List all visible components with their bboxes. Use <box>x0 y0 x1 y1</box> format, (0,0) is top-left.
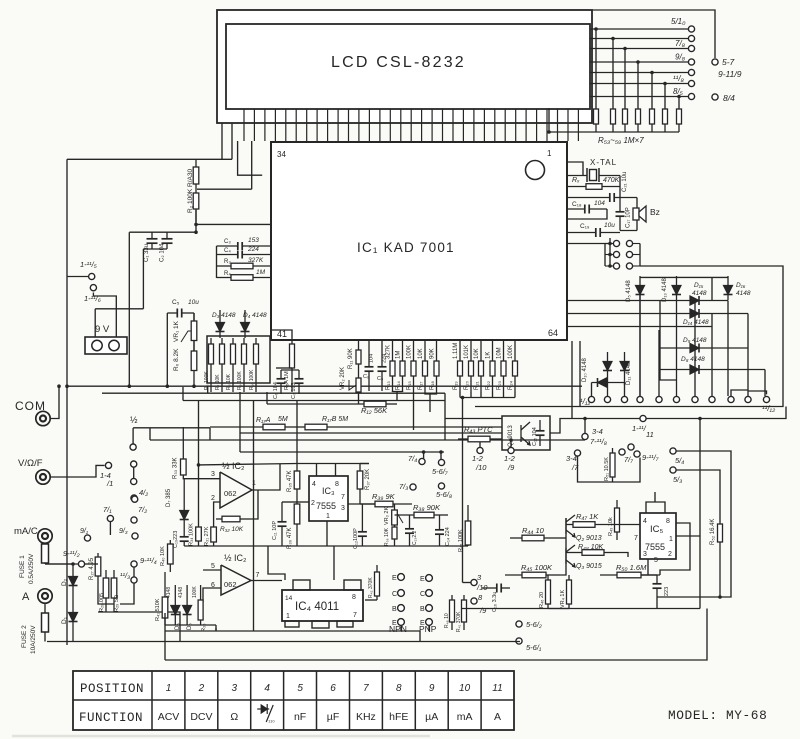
capacitor C19 10u <box>567 228 620 237</box>
wire IC3 top bus <box>297 463 369 465</box>
svg-text:11: 11 <box>492 683 502 694</box>
svg-text:C₈: C₈ <box>363 374 369 380</box>
svg-text:7/₇: 7/₇ <box>624 455 633 464</box>
buzzer BZ <box>620 197 637 199</box>
svg-text:9/₈: 9/₈ <box>675 53 686 62</box>
svg-text:7/₈: 7/₈ <box>675 39 686 48</box>
resistor R57 <box>650 108 655 132</box>
svg-text:1M: 1M <box>396 351 402 359</box>
switch contact 1-4/1 <box>105 462 111 468</box>
svg-text:7/₄: 7/₄ <box>408 454 417 463</box>
resistor R₂₄ 100K <box>513 341 518 392</box>
switch contact 4/2 <box>131 495 137 501</box>
svg-text:C₁₀223: C₁₀223 <box>173 531 179 548</box>
svg-text:2: 2 <box>668 551 672 558</box>
svg-text:7: 7 <box>363 683 369 694</box>
switch contact 5-7 9-11/9 <box>712 59 718 65</box>
switch contact 6/12 <box>673 396 679 402</box>
wire long vertical x253 <box>253 401 255 632</box>
resistor R₂₂ 1K <box>490 341 495 392</box>
wire R50 to C17 <box>641 574 657 576</box>
wire IC3 pin3 out <box>348 503 375 505</box>
svg-text:Q₂ 9013: Q₂ 9013 <box>576 535 602 542</box>
svg-text:IC₁ KAD 7001: IC₁ KAD 7001 <box>357 240 455 255</box>
wire comb left extensions <box>238 141 263 175</box>
diode D14 4148 <box>660 309 748 318</box>
svg-text:1: 1 <box>286 613 290 620</box>
wire Q2 Q3 column <box>565 518 567 564</box>
wire LCD top to switch contact 5-7 <box>592 10 715 58</box>
svg-text:C₂ 104: C₂ 104 <box>160 243 166 262</box>
wire R17 R18 bottoms <box>425 392 437 394</box>
svg-text:10u: 10u <box>188 299 199 306</box>
capacitor C1 33u <box>147 232 158 249</box>
svg-text:ACV: ACV <box>158 711 180 723</box>
svg-text:R₆ 8.2K: R₆ 8.2K <box>173 348 180 371</box>
svg-text:6: 6 <box>330 683 336 694</box>
IC U4 4011 <box>282 590 363 621</box>
svg-text:R₃₉ 9K: R₃₉ 9K <box>372 492 396 501</box>
resistor R₁₈ 90K <box>434 341 439 392</box>
wire 5/4 to R52 rail <box>657 451 731 597</box>
wire fuse2 bottom <box>44 632 46 642</box>
diode D2 <box>69 564 78 598</box>
wire R19-R24 bottom bus <box>460 397 515 399</box>
svg-text:1: 1 <box>547 149 552 158</box>
switch contact line 5 <box>688 69 694 75</box>
wire opamp1 in+ <box>183 475 220 479</box>
wire d-net verticals <box>659 327 661 370</box>
svg-text:nF: nF <box>294 711 306 723</box>
divider sub-box <box>207 336 270 383</box>
svg-text:Q₁ 9013: Q₁ 9013 <box>508 425 514 447</box>
svg-text:4: 4 <box>643 518 647 525</box>
wire IC bottom bus <box>283 339 549 341</box>
resistor R37 20K <box>357 464 363 505</box>
wire diodes bottom <box>165 624 216 626</box>
wire left drop to ground bus <box>128 232 130 386</box>
svg-text:4/₂: 4/₂ <box>139 488 148 497</box>
switch contact 9-11/4 <box>131 561 137 567</box>
svg-text:VR₃ 2K: VR₃ 2K <box>384 507 390 525</box>
capacitor C11 10P <box>278 502 287 546</box>
svg-text:C₄: C₄ <box>224 248 231 254</box>
svg-text:mA/C: mA/C <box>14 526 38 537</box>
wire IC right bottom drops <box>571 341 573 419</box>
svg-text:8: 8 <box>352 594 356 601</box>
svg-text:D₁₁ 4148: D₁₁ 4148 <box>626 361 632 385</box>
wire vert x198 <box>198 401 200 465</box>
switch contact 7/4 <box>419 458 425 464</box>
svg-text:9: 9 <box>429 683 435 694</box>
IC U1 KAD 7001 body <box>271 142 567 340</box>
svg-text:C: C <box>420 591 425 598</box>
svg-text:IC₃: IC₃ <box>322 486 335 496</box>
svg-text:101K: 101K <box>464 345 470 359</box>
svg-text:R₃₅ 47K: R₃₅ 47K <box>287 470 293 492</box>
resistor R2b <box>193 190 199 222</box>
svg-text:R₁₅: R₁₅ <box>407 381 413 390</box>
svg-text:C₁₈: C₁₈ <box>572 201 582 208</box>
svg-text:Ω: Ω <box>230 711 238 723</box>
resistor R17A 5M <box>210 424 297 430</box>
svg-text:¹/₁₂: ¹/₁₂ <box>580 397 590 406</box>
switch contact 8/12 <box>709 396 715 402</box>
svg-text:µA: µA <box>425 711 438 723</box>
wire shunt bottom <box>98 590 114 604</box>
wire buzzer bottom <box>620 230 637 232</box>
svg-text:8: 8 <box>335 481 339 488</box>
resistor R₈ 10K <box>231 338 236 392</box>
svg-text:R₃: R₃ <box>224 259 231 265</box>
resistor R36b 10K <box>392 527 397 546</box>
svg-text:C₇ 103: C₇ 103 <box>291 382 297 399</box>
svg-text:104: 104 <box>369 354 375 363</box>
svg-text:D₁₄ 4148: D₁₄ 4148 <box>683 319 709 326</box>
wire top left to R2 <box>67 158 232 160</box>
svg-text:¹¹/₁₂: ¹¹/₁₂ <box>762 404 775 413</box>
battery BT1 9V <box>85 337 127 354</box>
transistor Q3 9015 <box>566 545 575 567</box>
IC U3 7555 <box>309 476 348 521</box>
resistor RX 470K <box>567 184 620 190</box>
junction dots on ground bus <box>128 384 132 388</box>
svg-text:C₁₅ 104: C₁₅ 104 <box>532 427 538 446</box>
svg-text:R₄₂ 370K: R₄₂ 370K <box>368 577 374 598</box>
resistor R42b 370K <box>375 565 380 600</box>
wire caps top <box>281 369 299 371</box>
wire right rail down <box>699 419 701 609</box>
svg-text:4148: 4148 <box>736 290 751 297</box>
switch contact line 3 <box>688 45 694 51</box>
svg-text:9-¹¹/₂: 9-¹¹/₂ <box>63 549 80 558</box>
resistor R6A 1M <box>290 338 295 392</box>
svg-text:1-2: 1-2 <box>472 454 484 463</box>
switch contact 9/1 <box>84 535 90 541</box>
scan smear bottom <box>12 735 430 738</box>
resistor R27 4.95 <box>95 553 101 590</box>
svg-text:R₈ 10K: R₈ 10K <box>226 373 232 390</box>
svg-text:D₁₆: D₁₆ <box>736 282 746 289</box>
capacitor C8 104 <box>365 341 374 391</box>
svg-text:8: 8 <box>666 518 670 525</box>
svg-text:LCD CSL-8232: LCD CSL-8232 <box>331 54 466 71</box>
wire 1-11/11 to right rail <box>647 407 787 419</box>
wire bus 4b <box>240 432 502 434</box>
switch contact 2/12 <box>604 396 610 402</box>
svg-text:4148: 4148 <box>692 290 707 297</box>
svg-text:FUNCTION: FUNCTION <box>79 711 143 725</box>
svg-text:3: 3 <box>477 573 482 582</box>
svg-text:R₃₁ 27K: R₃₁ 27K <box>204 526 210 546</box>
svg-text:FUSE 2: FUSE 2 <box>21 625 28 648</box>
wire LCD backplane line 3 <box>590 48 688 50</box>
svg-text:R₇ 10K: R₇ 10K <box>215 374 221 390</box>
wire contact feeds from buses <box>479 440 481 447</box>
svg-text:VR₁ 1K: VR₁ 1K <box>173 320 180 342</box>
svg-text:µF: µF <box>327 711 339 723</box>
svg-text:KHz: KHz <box>356 711 376 723</box>
capacitor C14 224 <box>435 515 444 546</box>
switch contact 3/12 <box>621 396 627 402</box>
capacitor C10 223 <box>180 533 189 546</box>
svg-text:R₄₉ 10k: R₄₉ 10k <box>608 517 614 536</box>
wire R35 column up <box>296 401 298 464</box>
resistor R₂₁ 10K <box>479 341 484 392</box>
switch contact 1-11/6 <box>90 285 96 291</box>
svg-text:R₅₀ 1.6M: R₅₀ 1.6M <box>616 563 647 572</box>
wire column to R58 <box>664 84 666 109</box>
wire R13 R14 bottoms <box>393 391 403 394</box>
op-amp U2B <box>221 565 251 595</box>
svg-text:/9: /9 <box>507 463 515 472</box>
capacitor C16 3.3u <box>482 584 510 593</box>
svg-text:hFE: hFE <box>389 711 408 723</box>
switch contact 1-2/10 <box>477 447 483 453</box>
svg-text:IC₄ 4011: IC₄ 4011 <box>295 601 339 613</box>
transistor socket NPN <box>398 574 405 581</box>
wire R51 bottom frame <box>578 456 641 482</box>
svg-text:B: B <box>392 606 397 613</box>
svg-text:D₆: D₆ <box>187 623 193 630</box>
wire vert x240 <box>239 401 241 452</box>
wire mA to fuse1 <box>44 542 46 545</box>
diode box frame <box>475 266 783 407</box>
svg-text:/10: /10 <box>475 463 487 472</box>
wire x198 down to R34 <box>198 465 200 527</box>
switch contact 7/2 <box>131 517 137 523</box>
switch contact 9/3 <box>132 533 138 539</box>
wire LCD backplane line 2 <box>590 38 688 40</box>
resistor R53 <box>594 108 599 132</box>
table column lines <box>152 671 481 730</box>
svg-text:R₁₁ 90K: R₁₁ 90K <box>348 348 354 369</box>
svg-text:153: 153 <box>248 237 259 244</box>
op-amp U2A <box>220 472 252 508</box>
wire LCD left pins drop <box>221 123 223 159</box>
capacitor C7 103 <box>295 370 304 394</box>
resistor R29 5R <box>111 570 117 612</box>
svg-text:9-11/9: 9-11/9 <box>718 69 742 79</box>
svg-text:R₄₁ 510K: R₄₁ 510K <box>155 598 161 621</box>
svg-text:C: C <box>392 591 397 598</box>
svg-text:470K: 470K <box>603 177 620 184</box>
wire socket bottom stubs <box>400 625 402 631</box>
resistor R41b 370K <box>462 595 467 630</box>
svg-text:R₁₆ 100K: R₁₆ 100K <box>249 369 255 390</box>
svg-text:R₂₃: R₂₃ <box>497 380 503 390</box>
resistor R₅ 100K <box>209 338 214 392</box>
svg-text:R₄₅ 100K: R₄₅ 100K <box>521 563 553 572</box>
diode D5b <box>171 585 180 625</box>
svg-text:D₅: D₅ <box>175 623 181 630</box>
wire COM to bus <box>51 386 60 418</box>
svg-text:4: 4 <box>312 481 316 488</box>
svg-text:7: 7 <box>256 572 260 579</box>
svg-text:D₁₅: D₁₅ <box>694 282 704 289</box>
wire box bottom to bus <box>239 392 241 401</box>
svg-text:R₄₇ 1K: R₄₇ 1K <box>576 512 599 521</box>
diode D13 4148 <box>672 276 681 396</box>
resistor R51 10.5K <box>610 448 615 482</box>
svg-text:5: 5 <box>211 563 215 570</box>
resistor R₁₃ 327K <box>390 341 395 392</box>
wire 5/3 to R52 <box>677 470 721 522</box>
IC U5 7555 <box>640 513 676 559</box>
svg-text:R₂₂: R₂₂ <box>486 380 492 390</box>
potentiometer VR2 20K <box>356 375 361 395</box>
svg-text:D₈ 4148: D₈ 4148 <box>681 356 705 363</box>
svg-text:062: 062 <box>224 489 237 498</box>
svg-text:C₁₁ 10P: C₁₁ 10P <box>272 521 278 540</box>
diode D6 <box>183 585 192 625</box>
switch contact 8/4 <box>712 94 718 100</box>
svg-text:4: 4 <box>264 683 270 694</box>
wire column to R57 <box>651 73 653 109</box>
wire bus y452 <box>240 451 444 453</box>
wire left entries <box>567 300 660 302</box>
wire V terminal <box>51 465 105 477</box>
resistor R6 8.2K <box>191 341 197 387</box>
switch contact 3-4/7-11/8 <box>582 433 588 439</box>
capacitor C17b 223 <box>653 575 662 597</box>
svg-text:VR₄ 1K: VR₄ 1K <box>560 590 566 608</box>
svg-text:7: 7 <box>341 494 345 501</box>
svg-text:5-7: 5-7 <box>722 57 735 67</box>
svg-text:R₅ 100K: R₅ 100K <box>204 371 210 390</box>
svg-text:C₅: C₅ <box>172 299 180 306</box>
resistor R48 10 <box>450 595 455 630</box>
resistor R56 <box>636 108 641 132</box>
resistor R₁₇ 10K <box>423 341 428 392</box>
svg-text:1: 1 <box>326 513 330 520</box>
transistor Q2 9013 <box>566 515 575 537</box>
svg-text:D₂: D₂ <box>61 578 68 586</box>
wire IC5 right link <box>676 535 700 537</box>
svg-text:mA: mA <box>457 711 473 723</box>
svg-text:R₆A 1M: R₆A 1M <box>284 371 290 390</box>
switch contact 7/12 <box>692 396 698 402</box>
wire column to R53 <box>595 29 597 108</box>
svg-text:0.5A/250V: 0.5A/250V <box>28 553 35 584</box>
potentiometer VR4 1K <box>567 575 572 608</box>
svg-text:3: 3 <box>211 471 215 478</box>
wire x462 long vertical <box>462 412 464 583</box>
switch contact line 7 <box>688 93 694 99</box>
wire A to fuse2 <box>44 603 46 613</box>
svg-text:64: 64 <box>548 328 558 338</box>
wire column to R59 <box>678 97 680 109</box>
svg-text:1: 1 <box>669 536 673 543</box>
svg-text:100K: 100K <box>192 586 198 598</box>
wire diode top bus <box>640 276 728 278</box>
svg-text:R₂₁: R₂₁ <box>474 381 480 390</box>
svg-text:C₂₁ 10u: C₂₁ 10u <box>622 172 628 192</box>
wire LCD pin comb <box>244 109 578 141</box>
svg-text:1-2: 1-2 <box>504 454 516 463</box>
svg-text:5M: 5M <box>278 416 288 423</box>
svg-text:3-4: 3-4 <box>592 427 603 436</box>
capacitor C3 153 <box>217 242 272 250</box>
diode D3 4148 <box>216 310 225 338</box>
svg-text:/10: /10 <box>476 583 488 592</box>
svg-text:1K: 1K <box>486 352 492 359</box>
svg-text:R₂₉ 5Ω: R₂₉ 5Ω <box>114 595 120 612</box>
wire LCD backplane line 7 <box>590 96 688 98</box>
diode D11 4148 <box>592 378 625 387</box>
svg-text:8: 8 <box>396 683 402 694</box>
svg-text:7-¹¹/₈: 7-¹¹/₈ <box>590 437 607 446</box>
svg-text:IC₅: IC₅ <box>650 524 664 535</box>
svg-text:C₆ 104: C₆ 104 <box>273 382 279 399</box>
resistor R32 10K <box>216 516 250 522</box>
svg-text:2: 2 <box>311 500 315 507</box>
wire IC5 pin3 down <box>647 559 649 575</box>
LCD module CSL-8232 body <box>226 24 590 109</box>
switch contact 7/3 <box>410 484 416 490</box>
wire column to R56 <box>637 62 639 108</box>
svg-text:5-6/₇: 5-6/₇ <box>432 467 448 476</box>
svg-text:¹¹/₃: ¹¹/₃ <box>120 571 130 580</box>
wire opamp1 in- <box>214 502 220 527</box>
svg-text:327K: 327K <box>248 257 264 264</box>
svg-text:R₄₆ 20: R₄₆ 20 <box>539 592 545 608</box>
svg-text:R₁₄: R₁₄ <box>396 381 402 390</box>
resistor R42 100K <box>465 505 471 546</box>
wire R2 to IC left <box>196 223 271 225</box>
svg-text:R₃₂ 10K: R₃₂ 10K <box>220 526 244 533</box>
wire switch rows feed <box>609 238 611 266</box>
resistor R₁₉ 1.11M <box>458 341 463 392</box>
switch contact line 1 <box>688 26 694 32</box>
resistor R49 10K <box>615 500 620 540</box>
switch contact 5-6/2 <box>516 621 522 627</box>
svg-text:D₅ 4148: D₅ 4148 <box>626 280 632 302</box>
svg-text:A: A <box>494 711 501 723</box>
switch contact 11/3 <box>131 577 137 583</box>
svg-text:90K: 90K <box>430 348 436 359</box>
svg-text:11: 11 <box>646 430 654 439</box>
svg-text:D₃ 4148: D₃ 4148 <box>212 312 236 319</box>
wire to switch rows <box>567 243 610 245</box>
IC U1 pin-1 mark circle <box>526 161 545 180</box>
capacitor C13 2.2 <box>405 515 414 546</box>
wire LCD backplane line 5 <box>590 72 688 74</box>
switch contact 1-11/11 <box>640 415 646 421</box>
diode D16 4148 <box>724 276 733 300</box>
svg-text:B: B <box>420 606 425 613</box>
switch contact 5/12 <box>656 396 662 402</box>
svg-text:R₁₇A: R₁₇A <box>256 417 271 424</box>
svg-text:14: 14 <box>285 595 293 602</box>
svg-text:10K: 10K <box>474 348 480 359</box>
svg-text:D₁₃ 4148: D₁₃ 4148 <box>662 278 668 302</box>
resistor R₁₅ 100K <box>411 341 416 392</box>
switch contact 1-2/9 <box>508 447 514 453</box>
switch contact 5-6/1 <box>516 638 522 644</box>
svg-text:R₅₃~₅₉ 1M×7: R₅₃~₅₉ 1M×7 <box>598 136 644 145</box>
svg-text:R₁₇: R₁₇ <box>418 382 424 390</box>
svg-text:R₉ 100K: R₉ 100K <box>237 371 243 390</box>
svg-text:5-6/₈: 5-6/₈ <box>436 490 452 499</box>
wire bottom buses <box>165 631 420 642</box>
switch contact 7/7 <box>619 449 625 455</box>
svg-text:R₃₆ 10K: R₃₆ 10K <box>384 527 390 546</box>
svg-text:3: 3 <box>341 505 345 512</box>
svg-text:R₁₉: R₁₉ <box>453 381 459 390</box>
switch contact 5-6/7 <box>438 459 444 465</box>
wire contacts feeds <box>694 301 696 397</box>
